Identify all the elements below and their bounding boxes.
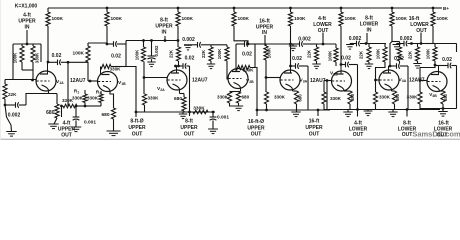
svg-text:IN: IN — [162, 30, 167, 36]
svg-text:12AU7: 12AU7 — [192, 77, 208, 83]
svg-text:680: 680 — [298, 94, 303, 102]
cathode V4A — [391, 90, 393, 91]
wire bus up to V3B grid — [326, 81, 328, 111]
resistor 330K output stage3 — [193, 110, 208, 114]
svg-text:OUT: OUT — [61, 132, 72, 138]
svg-text:100K: 100K — [111, 16, 123, 22]
svg-text:0.02: 0.02 — [341, 56, 351, 62]
svg-text:330K: 330K — [87, 96, 99, 101]
capacitor 0.001 stage3 — [212, 111, 215, 114]
svg-text:UPPER: UPPER — [128, 125, 146, 131]
svg-text:680: 680 — [395, 93, 400, 101]
cathode V1B to 680 — [110, 92, 114, 109]
cathode V2B — [240, 88, 242, 91]
svg-text:OUT: OUT — [132, 132, 143, 138]
cathode V3B — [343, 90, 345, 91]
resistor 100K stage7 — [425, 43, 435, 45]
svg-text:UPPER: UPPER — [180, 125, 198, 131]
ground input — [6, 131, 16, 133]
svg-text:100K: 100K — [396, 16, 408, 22]
triode V3B — [332, 65, 352, 92]
grid dot V4A — [374, 79, 377, 82]
ground bus stage6 — [367, 110, 369, 112]
svg-text:IN: IN — [367, 28, 372, 34]
wire RC right to 100K and V3A — [255, 43, 266, 45]
resistor 100K shunt stage3 — [143, 41, 145, 48]
wire shunt bottoms to grid — [21, 62, 23, 70]
plate resistor 100K at x=178 — [177, 7, 180, 10]
svg-text:330K: 330K — [193, 106, 205, 112]
plate resistor 100K at x=433 — [432, 7, 435, 10]
wire dropper5 down — [290, 26, 292, 44]
svg-text:100K: 100K — [135, 49, 140, 60]
wire dropper8 right — [433, 43, 457, 45]
output node 4-ft UPPER OUT — [60, 105, 63, 108]
svg-text:0.02: 0.02 — [185, 56, 195, 62]
svg-text:16-ft: 16-ft — [259, 18, 270, 24]
node 8-ft out — [188, 111, 191, 114]
svg-text:0.02: 0.02 — [292, 56, 302, 62]
svg-text:OUT: OUT — [184, 132, 195, 138]
node plate V1A — [47, 61, 50, 64]
plate node V2A — [174, 65, 177, 68]
cathode V3A 680 — [292, 90, 294, 91]
resistor 22K stage5 — [308, 43, 317, 45]
svg-text:0.02: 0.02 — [111, 54, 121, 60]
svg-text:8-ft: 8-ft — [185, 119, 193, 125]
svg-text:100K: 100K — [217, 48, 222, 59]
svg-text:0.02: 0.02 — [394, 56, 404, 62]
svg-text:330K: 330K — [35, 52, 40, 63]
input stub 8-ft LOWER IN — [366, 33, 368, 44]
resistor 680 V4A — [392, 91, 396, 104]
resistor 100K stage4 — [265, 44, 267, 46]
input stub 8-ft UPPER IN — [164, 36, 166, 41]
triode V2B — [228, 68, 248, 89]
cathode resistor 680 V1B — [111, 108, 115, 119]
ground V1B cathode — [107, 130, 121, 132]
svg-text:OUT: OUT — [309, 132, 320, 138]
ground 0.001 — [71, 126, 81, 128]
svg-text:100K: 100K — [52, 16, 64, 22]
wire 100K to V2B grid — [227, 61, 229, 79]
svg-text:100K: 100K — [73, 51, 85, 57]
svg-text:680: 680 — [350, 93, 355, 101]
plate node V4A — [389, 65, 392, 68]
grid chain to 330K — [323, 81, 325, 92]
ground stub mid stage3 — [182, 112, 184, 114]
cathode V2A 680 — [179, 90, 181, 94]
cathode lead V1A — [48, 91, 50, 94]
svg-text:330K: 330K — [243, 68, 255, 73]
resistor R1 330K — [83, 94, 87, 103]
ground 0.002 stage3 — [147, 61, 155, 63]
svg-text:22K: 22K — [8, 92, 17, 97]
grid dot V1A — [31, 79, 34, 82]
svg-text:100K: 100K — [328, 50, 333, 61]
node 22K bottom — [4, 99, 6, 105]
svg-text:0.001: 0.001 — [84, 120, 96, 126]
svg-text:330K: 330K — [148, 96, 160, 101]
resistor 22K stage6 — [368, 44, 370, 48]
wire dropper8 down — [432, 26, 434, 44]
wire coupling to 4-ft LOWER OUT — [349, 64, 358, 66]
plate resistor 100K at x=234 — [233, 7, 236, 10]
resistor 330K input shunt — [32, 44, 34, 46]
ground stage3 out — [208, 128, 218, 130]
svg-text:100K: 100K — [376, 48, 381, 59]
resistor 330K V2B cathode — [227, 92, 231, 104]
svg-text:B+: B+ — [443, 6, 449, 11]
cathode V4B — [439, 90, 441, 92]
wire input bus stage3 — [126, 40, 178, 42]
svg-text:22K: 22K — [201, 49, 206, 58]
svg-text:22K: 22K — [408, 50, 413, 59]
svg-text:330K: 330K — [217, 95, 229, 100]
plate node V3B — [340, 63, 343, 66]
wire series 100K node — [88, 42, 107, 44]
svg-text:330K: 330K — [110, 67, 122, 72]
svg-text:330K: 330K — [72, 96, 84, 101]
svg-text:0.002: 0.002 — [154, 45, 159, 57]
svg-text:22K: 22K — [169, 49, 174, 58]
resistor 330K V3B — [323, 91, 325, 92]
output stub 16-ft UPPER OUT — [317, 110, 319, 116]
resistor 680 V2B — [238, 91, 240, 94]
input stub 4-ft UPPER IN — [26, 30, 28, 44]
svg-text:680: 680 — [443, 93, 448, 101]
bottom bus stage6 — [324, 104, 378, 110]
capacitor 0.02 plate coupling V1A — [48, 61, 58, 63]
svg-text:IN: IN — [25, 25, 30, 31]
resistor 22K stage7 — [417, 44, 419, 48]
svg-text:0.02: 0.02 — [242, 52, 252, 58]
svg-text:100K: 100K — [238, 16, 250, 22]
svg-text:680: 680 — [46, 110, 55, 116]
svg-text:0.002: 0.002 — [8, 113, 21, 119]
plate resistor 100K at x=392 — [391, 7, 394, 10]
svg-text:OUT: OUT — [353, 132, 364, 138]
bottom bus stage8 — [420, 104, 457, 109]
wire coupling right down — [456, 66, 458, 109]
triode V2A — [167, 66, 187, 90]
resistor 100K stage6 — [384, 44, 386, 48]
resistor 330K grid leak V3A — [265, 78, 267, 93]
svg-text:330K: 330K — [407, 95, 419, 100]
resistor 330K V4B — [419, 81, 421, 93]
wire input bus stage5 — [266, 43, 296, 45]
wire dropper2 down — [106, 26, 108, 44]
wire ground stage1 — [5, 105, 12, 132]
ground stage8 — [442, 109, 444, 112]
svg-text:0.002: 0.002 — [182, 37, 195, 43]
grounds V2B — [230, 103, 239, 106]
svg-text:100K: 100K — [426, 48, 431, 59]
wire RC down to output bus — [125, 41, 127, 67]
svg-text:330K: 330K — [379, 95, 391, 100]
plate node V4B — [434, 64, 437, 67]
wire coupling down to bus — [307, 66, 309, 110]
series 100K dropper7 to stage8 — [392, 41, 400, 43]
wire coupling to 8-ft LOWER OUT — [407, 66, 409, 110]
capacitor 0.002 shunt — [151, 41, 153, 57]
output stub 8-ft LOWER OUT — [406, 110, 408, 117]
top out stub 16-ft LOWER — [420, 33, 422, 44]
wire coupling down to 8-ft out — [189, 66, 191, 112]
wire coupling to output bus — [67, 62, 69, 106]
resistor 680 V4B — [441, 91, 445, 104]
output wire 16-ft A — [255, 68, 257, 111]
svg-text:OUT: OUT — [251, 132, 262, 138]
wire 100K stage7 to V4B grid — [420, 61, 435, 81]
svg-text:680: 680 — [174, 96, 182, 102]
wire dropper4 jog — [234, 26, 248, 44]
svg-text:8-ft-Ø: 8-ft-Ø — [130, 119, 143, 125]
plate resistor 100K at x=290.5 — [289, 7, 292, 10]
ground stage7 — [392, 110, 394, 113]
svg-text:330K: 330K — [330, 96, 342, 101]
scan edge bottom — [0, 139, 460, 140]
scan edge left — [0, 0, 2, 140]
svg-text:K=X1,000: K=X1,000 — [15, 4, 38, 10]
plate node V3A — [290, 44, 292, 66]
svg-text:OUT: OUT — [437, 132, 448, 138]
svg-text:100K: 100K — [345, 16, 357, 22]
plate resistor 100K at x=341 — [340, 7, 343, 10]
bottom bus stage7 — [376, 104, 441, 110]
resistor 100K input shunt — [21, 44, 23, 46]
resistor R2 330K — [99, 94, 103, 103]
svg-text:22K: 22K — [307, 49, 312, 58]
svg-text:22K: 22K — [359, 50, 364, 59]
triode V3A — [280, 66, 300, 90]
svg-text:330K: 330K — [274, 95, 286, 100]
triode V1B — [98, 67, 118, 92]
resistor 330K V4A — [375, 80, 377, 92]
ground stage5 — [296, 110, 298, 112]
svg-text:100K: 100K — [267, 47, 272, 58]
wire grid V1A — [12, 44, 14, 80]
wire coupling to series 100K — [68, 61, 88, 63]
wire input bus stage1 — [13, 43, 41, 45]
grid dot V4B — [419, 79, 422, 82]
svg-text:UPPER: UPPER — [305, 125, 323, 131]
capacitor 0.002 cathode — [5, 104, 15, 106]
output bus 8-ft — [136, 111, 215, 113]
capacitor 0.001 output — [75, 106, 77, 117]
triode V4B — [427, 65, 447, 92]
svg-text:0.002: 0.002 — [400, 36, 413, 42]
output stub 8-ft — [189, 112, 191, 116]
resistor 330K grid leak V2A — [143, 78, 145, 95]
bottom bus stage5 — [265, 109, 330, 111]
svg-text:16-ft: 16-ft — [309, 119, 320, 125]
svg-text:100K: 100K — [182, 16, 194, 22]
wire 100K stage6 to V4A grid — [376, 62, 386, 80]
wire to V3A grid — [265, 60, 267, 78]
resistor 100K stage5 — [317, 43, 337, 45]
svg-text:0.02: 0.02 — [52, 53, 62, 59]
wire R1 top — [84, 90, 86, 94]
wire dropper3 down — [177, 26, 179, 47]
wire cap to cathode — [26, 94, 57, 106]
ground cathode V1A — [54, 118, 57, 124]
wire dropper7 to plate V4A — [390, 42, 392, 67]
top out stub 4-ft LOWER — [322, 33, 324, 45]
svg-text:0.002: 0.002 — [298, 36, 311, 42]
svg-text:OUT: OUT — [402, 132, 413, 138]
wire dropper1 to plate — [47, 26, 49, 62]
resistor 100K stage3 shunt2 — [211, 44, 227, 46]
triode V4A — [379, 66, 399, 90]
resistor 330K output filter — [63, 104, 77, 108]
node coupling out — [67, 61, 70, 64]
svg-text:680: 680 — [101, 112, 109, 118]
input stub 16-ft UPPER IN — [264, 35, 266, 46]
wire dropper7 down — [391, 26, 393, 42]
resistor 22K under dropper3 — [176, 47, 180, 61]
cathode resistor 680 V1A — [56, 94, 58, 105]
coupling RC 0.02 and 330K stage2 — [107, 43, 114, 45]
wire dropper6 down — [340, 26, 342, 65]
wire grid V2A — [143, 62, 145, 78]
output stub 4-ft LOWER OUT — [357, 110, 359, 117]
resistor 22K stage3 — [210, 45, 212, 47]
triode V1A — [36, 62, 56, 91]
resistor 100K series V1B grid — [87, 43, 89, 46]
svg-text:680: 680 — [242, 95, 250, 100]
svg-text:100K: 100K — [437, 16, 449, 22]
wire grid V1B — [87, 62, 89, 81]
svg-text:0.02: 0.02 — [442, 57, 452, 63]
plate resistor 100K at x=107 — [106, 7, 109, 10]
svg-text:12AU7: 12AU7 — [70, 78, 86, 84]
resistor 22K grid — [4, 80, 6, 85]
wire input to plate node — [40, 44, 42, 62]
resistor 680 cathode V3B — [348, 91, 352, 104]
svg-text:100K: 100K — [294, 16, 306, 22]
svg-text:0.001: 0.001 — [217, 115, 229, 121]
output stub 8-ft A — [135, 111, 138, 114]
coupling RC 0.02 330K stage4 — [236, 43, 240, 45]
B+ terminal — [433, 7, 442, 9]
plate resistor 100K at x=48 — [47, 8, 49, 12]
wire 22K to plate node — [178, 61, 180, 66]
svg-text:16-ft-Ø: 16-ft-Ø — [248, 119, 264, 125]
svg-text:12AU7: 12AU7 — [310, 78, 326, 84]
B+ rail — [48, 7, 433, 9]
ground stage6 — [347, 110, 349, 113]
